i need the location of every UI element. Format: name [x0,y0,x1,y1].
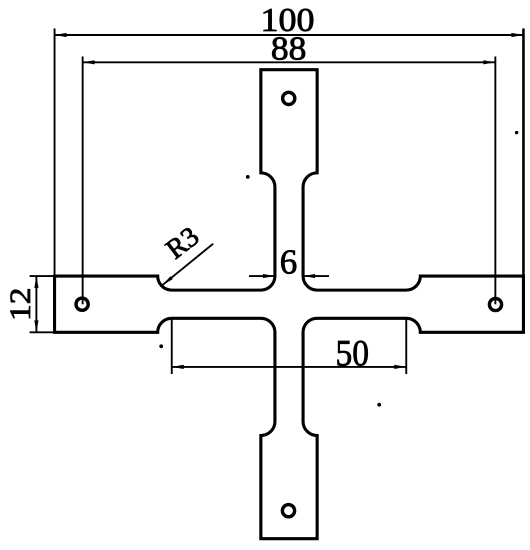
dim 88 arrow right [483,60,495,64]
dim 88 arrow left [83,60,95,64]
dim 50 extension line left [171,319,173,375]
stray dot bottom right [377,403,381,407]
leader R3 arrow [162,276,173,285]
dim 6 right line with arrow [303,275,329,277]
dim 100 line [55,34,524,36]
svg-text:R3: R3 [160,221,205,265]
dim 50 arrow left [172,365,184,369]
stray dot right [515,131,518,134]
dim 12 extension line bottom [30,331,55,333]
svg-text:88: 88 [271,30,307,67]
dim 50 arrow right [394,365,406,369]
dim 6 arrow left (points right) [263,274,275,278]
hole right [489,298,501,310]
svg-text:50: 50 [336,333,370,374]
cruciform specimen outline [55,70,524,539]
leader R3 line [162,244,213,286]
dim 50 extension line right [405,319,407,375]
dim 12 arrow bottom [34,320,38,332]
svg-text:12: 12 [4,287,37,321]
dim 100 extension line left [54,29,56,277]
svg-text:6: 6 [280,243,298,282]
dim 100 arrow right [511,33,523,37]
dim 88 extension line right [494,57,496,305]
dim 12 extension line top [30,275,55,277]
hole bottom [282,505,294,517]
dim 6 arrow right (points left) [303,274,315,278]
hole left [76,298,88,310]
dim 88 line [83,61,496,63]
stray dot upper middle [246,175,250,179]
stray dot left lower [159,344,163,348]
dim 6 left line with arrow [249,275,275,277]
dim 12 arrow top [34,276,38,288]
dim 88 extension line left [82,57,84,305]
dim 100 arrow left [55,33,67,37]
hole top [283,92,295,104]
dim 50 line [172,366,407,368]
dim 100 extension line right [522,29,525,277]
dim 12 line [35,276,37,332]
